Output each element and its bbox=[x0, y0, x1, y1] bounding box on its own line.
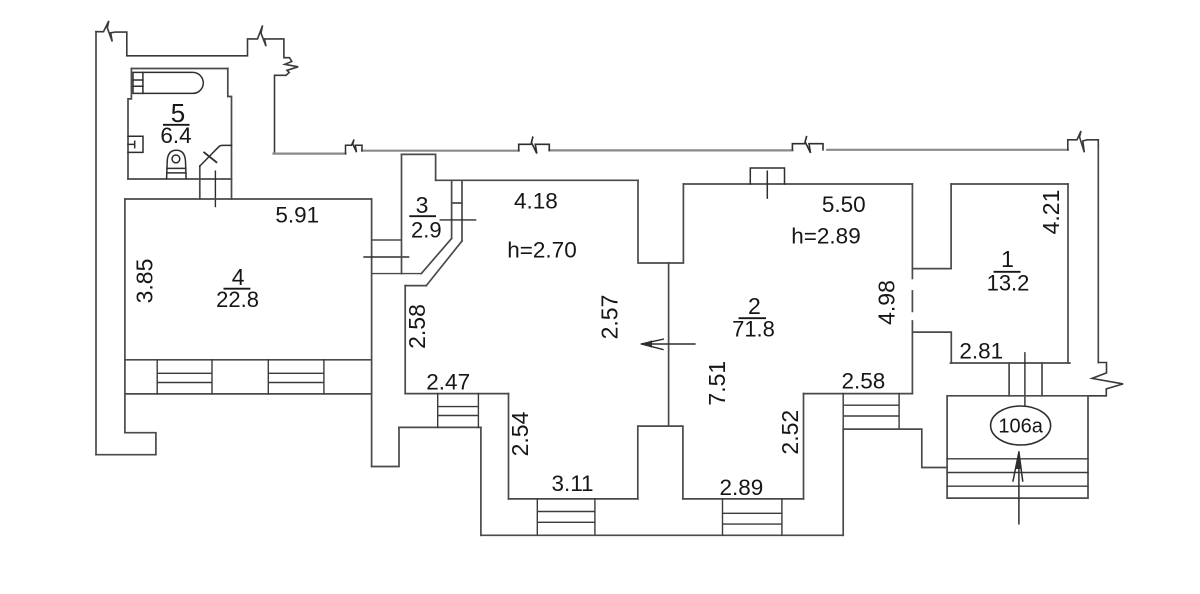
wall: chamfer diagonals bbox=[421, 238, 462, 285]
label: room1 underline bbox=[994, 271, 1021, 273]
window W5 (2.89) bbox=[723, 499, 782, 535]
wall: bottom band right of lobby bbox=[843, 429, 947, 467]
toilet base lines bbox=[167, 168, 186, 173]
opening marker room4 right wall bbox=[364, 256, 409, 258]
arrow tip fill: entry to main room bbox=[642, 340, 653, 347]
svg-text:4.21: 4.21 bbox=[1038, 190, 1064, 235]
svg-text:2.57: 2.57 bbox=[597, 295, 623, 340]
svg-text:6.4: 6.4 bbox=[160, 123, 191, 148]
vent chimney center line bbox=[766, 171, 768, 198]
svg-text:7.51: 7.51 bbox=[704, 361, 730, 406]
wire: break symbol 1 on top wall bbox=[519, 137, 550, 154]
wall: main room 2.54 bbox=[508, 394, 510, 499]
wall: main room top bbox=[436, 179, 638, 181]
door jambs below room1 bbox=[1009, 363, 1042, 396]
arrow tip fill: staircase bbox=[1016, 452, 1022, 470]
staircase block outline bbox=[947, 396, 1088, 498]
svg-text:4.98: 4.98 bbox=[874, 280, 900, 325]
wall: room4 right bbox=[371, 199, 373, 467]
svg-text:2: 2 bbox=[748, 293, 761, 319]
wall: room4 top bbox=[125, 198, 372, 200]
svg-text:2.9: 2.9 bbox=[411, 218, 442, 243]
wall: room4 bottom bbox=[125, 359, 372, 361]
svg-text:2.58: 2.58 bbox=[404, 304, 430, 349]
wall: room4 left bbox=[124, 199, 126, 433]
svg-text:2.47: 2.47 bbox=[426, 369, 470, 394]
wall: corridor corner down bbox=[480, 427, 482, 535]
wall: room2 lower-left bbox=[803, 394, 805, 499]
label: room4 underline bbox=[224, 288, 251, 290]
svg-text:71.8: 71.8 bbox=[732, 317, 775, 342]
wire: bottom-right jog with break symbol bbox=[1088, 363, 1123, 396]
svg-text:2.81: 2.81 bbox=[959, 339, 1003, 364]
svg-text:2.89: 2.89 bbox=[720, 475, 764, 500]
wall: room1 lower-left step bbox=[912, 332, 951, 363]
wall: chamfer foot bbox=[405, 285, 426, 287]
window W6 (2.58) bbox=[843, 394, 899, 430]
wire: bottom-left step bbox=[96, 433, 156, 455]
wall: corridor band bottom bbox=[399, 426, 481, 428]
wall: niche between main room and room2 bbox=[638, 180, 683, 263]
svg-text:22.8: 22.8 bbox=[216, 287, 259, 312]
wall: room3 left bbox=[401, 154, 403, 273]
wire: top-right jog with break bbox=[1068, 131, 1099, 152]
staircase treads bbox=[947, 459, 1088, 486]
window W1 below room4 bbox=[157, 360, 212, 394]
wall: main room bottom bbox=[509, 498, 638, 500]
wall: room3 double right bbox=[452, 180, 462, 241]
door chamfer: bathroom bbox=[200, 145, 232, 166]
svg-text:h=2.89: h=2.89 bbox=[791, 224, 860, 249]
wire: small break on left top wall bbox=[346, 140, 363, 154]
svg-text:2.52: 2.52 bbox=[777, 410, 803, 455]
window W3 corridor bbox=[438, 394, 479, 428]
wire: outer left wall bbox=[95, 32, 97, 455]
toilet body bbox=[167, 150, 187, 178]
wire: outer right wall bbox=[1097, 148, 1099, 363]
svg-text:13.2: 13.2 bbox=[987, 271, 1030, 296]
wall: room1 top bbox=[951, 183, 1068, 185]
vent chimney on room2 top wall bbox=[750, 168, 784, 184]
wall: room2 right dashed window bbox=[911, 291, 913, 312]
opening marker room3 bbox=[440, 219, 475, 221]
staircase entry arrow bbox=[1013, 452, 1023, 524]
wall: bathroom right with jog bbox=[228, 69, 232, 200]
svg-text:5.50: 5.50 bbox=[822, 192, 866, 217]
wall: room2 bottom bbox=[804, 393, 913, 395]
wire: top-left outline with break symbols bbox=[96, 21, 298, 154]
svg-text:3.11: 3.11 bbox=[551, 471, 593, 496]
wall: pier between rooms bbox=[638, 426, 683, 499]
sink tap bbox=[128, 141, 135, 147]
wall: right end of bottom outer bbox=[842, 429, 844, 535]
svg-text:3.85: 3.85 bbox=[132, 259, 158, 304]
svg-text:4.18: 4.18 bbox=[514, 189, 558, 214]
door marker: bathroom doorway bbox=[214, 171, 216, 206]
bathtub taps bbox=[133, 80, 143, 86]
door marker below room1 bbox=[1024, 353, 1026, 406]
ellipse: apartment number bbox=[991, 406, 1051, 445]
label: room5 underline bbox=[163, 124, 190, 126]
opening rungs room4 right wall bbox=[372, 240, 422, 274]
wall: corridor U bbox=[372, 427, 399, 466]
wall: bathroom bottom bbox=[128, 178, 232, 180]
svg-text:2.54: 2.54 bbox=[507, 411, 533, 456]
wall: lobby bottom bbox=[683, 498, 804, 500]
label: room2 underline bbox=[739, 317, 767, 319]
wall: room1 bottom bbox=[951, 362, 1070, 364]
door cross stroke: bathroom bbox=[204, 153, 216, 163]
wall: corridor band top bbox=[405, 393, 508, 395]
svg-text:1: 1 bbox=[1001, 246, 1014, 272]
svg-text:h=2.70: h=2.70 bbox=[507, 237, 576, 262]
wall: bathroom left with jog bbox=[128, 69, 131, 180]
arrow: entry to main room bbox=[642, 339, 695, 349]
wall: room1 right bbox=[1067, 184, 1069, 363]
wall: bathroom top bbox=[131, 68, 227, 70]
wire: break symbol 2 on top wall bbox=[792, 136, 823, 153]
bathtub divider bbox=[142, 72, 144, 93]
wall: bottom outer bbox=[481, 534, 843, 536]
wall: divider main room / room2 bbox=[668, 263, 670, 426]
window W2 below room4 bbox=[268, 360, 324, 394]
svg-text:2.58: 2.58 bbox=[842, 368, 886, 393]
toilet bowl circle bbox=[172, 155, 180, 163]
wall: niche between room2 and room1 bbox=[912, 184, 951, 269]
sink bbox=[128, 136, 143, 152]
label: room3 underline bbox=[409, 215, 436, 217]
wall: corridor 2.58 bbox=[404, 286, 406, 394]
wall: bathroom door left jamb bbox=[199, 166, 201, 199]
window W4 (3.11) bbox=[537, 499, 595, 535]
bathtub bbox=[133, 72, 203, 93]
svg-text:5.91: 5.91 bbox=[275, 203, 319, 228]
svg-text:106a: 106a bbox=[998, 416, 1043, 438]
wall: lower band line below room4 bbox=[125, 393, 372, 395]
wall: room2 right solid bottom bbox=[911, 321, 913, 394]
wall: room3 top and right step bbox=[402, 154, 436, 180]
wire: outer top wall gray segments bbox=[274, 150, 1068, 154]
svg-text:3: 3 bbox=[416, 192, 429, 218]
wall: room2 top bbox=[683, 183, 912, 185]
wall: room2 right solid top bbox=[911, 184, 913, 279]
